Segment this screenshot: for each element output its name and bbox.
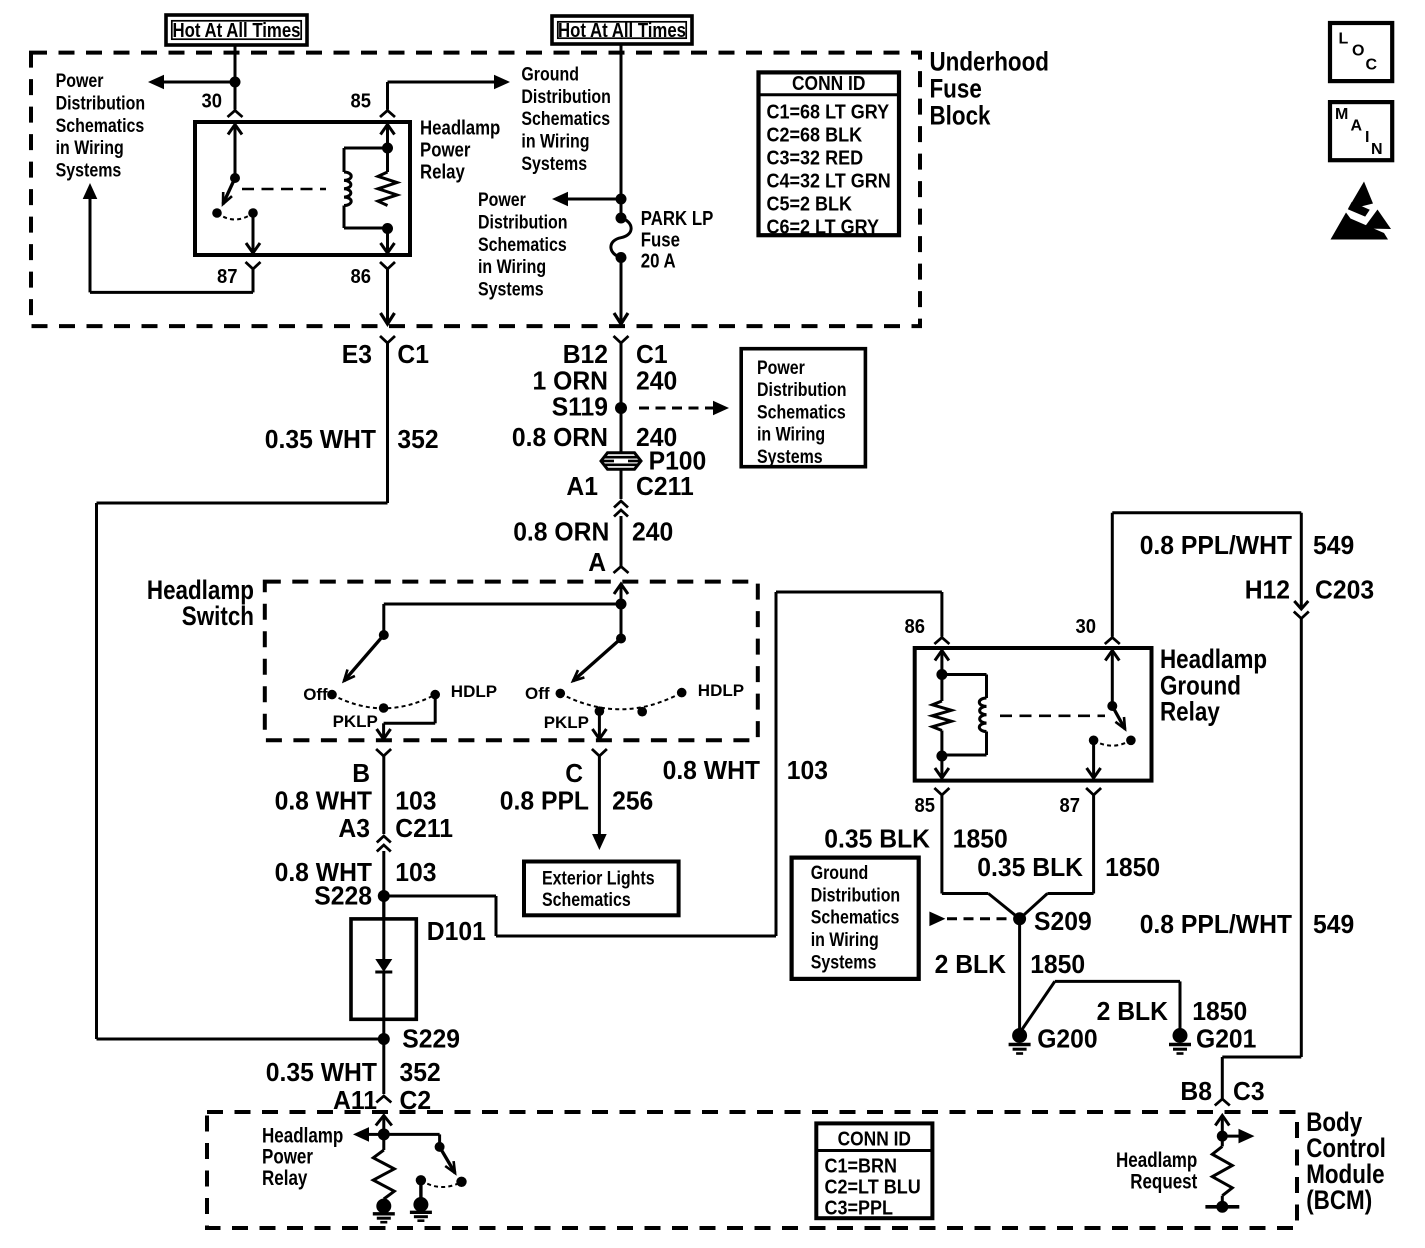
arrow down pin 85 inside relay bbox=[935, 768, 949, 778]
svg-text:Switch: Switch bbox=[182, 601, 254, 631]
svg-text:Headlamp: Headlamp bbox=[1116, 1149, 1197, 1172]
pin label 87 below bbox=[1060, 795, 1081, 817]
switch feed left drop bbox=[382, 604, 385, 635]
splice S209 bbox=[1013, 912, 1026, 925]
connector pin 87 power relay bbox=[246, 262, 261, 269]
splice label S119 bbox=[552, 392, 608, 422]
svg-text:C1=BRN: C1=BRN bbox=[825, 1156, 898, 1178]
svg-text:Hot At All Times: Hot At All Times bbox=[173, 20, 301, 42]
splice label S229 bbox=[402, 1024, 460, 1054]
conn C211 (B) bbox=[395, 813, 453, 843]
svg-text:A1: A1 bbox=[566, 471, 598, 501]
svg-text:Distribution: Distribution bbox=[811, 885, 901, 906]
label BCM l3 bbox=[1306, 1159, 1384, 1189]
conn C3 bbox=[1233, 1076, 1265, 1106]
junction at pin 30 feed bbox=[230, 77, 241, 88]
text bcm conn row C1=BRN bbox=[825, 1156, 898, 1178]
svg-text:0.35 BLK: 0.35 BLK bbox=[977, 852, 1083, 882]
text CONN ID title (UFB) bbox=[792, 73, 865, 95]
circuit 549 top bbox=[1313, 530, 1354, 560]
label 0.35 WHT (bottom) bbox=[266, 1057, 377, 1087]
svg-text:A3: A3 bbox=[338, 813, 370, 843]
arrow up pin 30 inside relay bbox=[228, 125, 242, 135]
junction headlamp request bbox=[1217, 1131, 1228, 1142]
wire HDLP contact drop bbox=[434, 695, 437, 724]
arrow down leaving fuse block (right) bbox=[614, 313, 628, 324]
svg-text:Schematics: Schematics bbox=[811, 908, 900, 929]
circuit 1850 (85) bbox=[953, 824, 1008, 854]
text ground dist box l4 bbox=[811, 930, 879, 951]
svg-text:Schematics: Schematics bbox=[757, 402, 846, 423]
circuit 256 bbox=[612, 786, 653, 816]
svg-text:Schematics: Schematics bbox=[521, 109, 610, 130]
wire HDLP to B jog bbox=[384, 722, 436, 725]
text PKLP (right) bbox=[544, 713, 589, 732]
svg-text:Schematics: Schematics bbox=[478, 235, 567, 256]
svg-text:240: 240 bbox=[636, 366, 677, 396]
contact HDLP (left wafer) bbox=[430, 690, 440, 700]
CONN ID table (BCM) bbox=[816, 1123, 932, 1218]
circuit 240 c bbox=[632, 516, 673, 546]
svg-text:C3=PPL: C3=PPL bbox=[825, 1197, 894, 1219]
coil left lead lower bbox=[343, 206, 346, 229]
pin label 86 (power relay) bbox=[351, 266, 372, 288]
svg-text:549: 549 bbox=[1313, 909, 1354, 939]
svg-text:Schematics: Schematics bbox=[542, 890, 631, 911]
svg-text:Power: Power bbox=[757, 358, 805, 379]
conn C2 bbox=[400, 1085, 432, 1115]
label Headlamp Power Relay l3 bbox=[420, 161, 466, 183]
text Exterior Lights bbox=[542, 869, 655, 890]
pin label 85 below bbox=[915, 795, 936, 817]
svg-text:Exterior Lights: Exterior Lights bbox=[542, 869, 655, 890]
text power dist box l2 bbox=[757, 380, 847, 401]
svg-text:O: O bbox=[1352, 43, 1364, 60]
wire 85 down bbox=[940, 795, 943, 894]
arrow up bcm drive input bbox=[376, 1116, 392, 1126]
coil left lead upper bbox=[343, 148, 346, 172]
splice S119 bbox=[615, 402, 627, 414]
text Schematics (ext lights) bbox=[542, 890, 631, 911]
contact movable (bcm) bbox=[456, 1177, 466, 1187]
wire contact to pin 87 bbox=[252, 213, 255, 252]
wire 352 WHT to S229 bbox=[97, 1038, 385, 1041]
icon MAIN box bbox=[1330, 102, 1392, 160]
fuse F1 PARK LP 20A symbol bbox=[611, 218, 631, 258]
text Power (bcm drive) bbox=[262, 1146, 313, 1169]
wire A into switch bbox=[620, 584, 623, 604]
svg-text:C2=LT BLU: C2=LT BLU bbox=[825, 1177, 921, 1199]
label Headlamp Ground Relay l3 bbox=[1160, 696, 1220, 726]
wire to power distribution (mid) bbox=[568, 198, 621, 201]
svg-text:PKLP: PKLP bbox=[544, 713, 589, 732]
fuse bottom terminal bbox=[616, 252, 627, 263]
text Power Distribution Schematics (mid) l4 bbox=[478, 257, 546, 278]
label Headlamp Ground Relay l2 bbox=[1160, 670, 1241, 700]
svg-text:352: 352 bbox=[397, 424, 438, 454]
connector E3/C1 (fuse block) bbox=[380, 336, 395, 343]
arrow down pin 87 inside relay bbox=[246, 243, 260, 253]
svg-text:2 BLK: 2 BLK bbox=[1097, 996, 1169, 1026]
arrow to power distribution schematics bbox=[148, 75, 164, 90]
text conn row C5=2 BLK bbox=[767, 194, 853, 216]
connector B12/C1 (fuse block) bbox=[614, 336, 629, 343]
connector A headlamp switch bbox=[614, 567, 629, 574]
svg-text:PARK LP: PARK LP bbox=[641, 208, 714, 230]
svg-text:S228: S228 bbox=[314, 881, 372, 911]
text CONN ID title (BCM) bbox=[838, 1129, 911, 1151]
svg-text:C5=2 BLK: C5=2 BLK bbox=[767, 194, 853, 216]
arrow down leaving fuse block (left) bbox=[381, 313, 395, 324]
wire pin30 to switch pivot bbox=[234, 125, 237, 179]
svg-text:Power: Power bbox=[56, 71, 104, 92]
wire 87 diag to S209 bbox=[1020, 894, 1048, 919]
wire S228 branch h2 bbox=[496, 935, 776, 938]
wire junction right bbox=[384, 1133, 440, 1136]
connector B8/C3 bbox=[1215, 1099, 1230, 1106]
coil bottom link (ground relay) bbox=[942, 754, 987, 757]
text Power Distribution Schematics in Wiring Systems l5 bbox=[56, 161, 122, 182]
reference box Power Distribution Schematics bbox=[741, 349, 865, 467]
ground internal BCM left bbox=[373, 1199, 395, 1223]
svg-text:103: 103 bbox=[787, 755, 828, 785]
wire 86 drop to relay bbox=[940, 592, 943, 637]
wire 103 WHT seg1 bbox=[382, 756, 385, 834]
wire branch drop to G201 bbox=[1179, 981, 1182, 1030]
connector pin 87 ground relay bbox=[1086, 788, 1101, 795]
ground G200 bbox=[1009, 1028, 1031, 1054]
wire C exit drop bbox=[598, 711, 601, 738]
text ground dist box l2 bbox=[811, 885, 901, 906]
svg-text:C3=32 RED: C3=32 RED bbox=[767, 148, 864, 170]
connector A3/C211 bbox=[377, 836, 391, 843]
svg-text:C2=68 BLK: C2=68 BLK bbox=[767, 125, 863, 147]
wire resistor to ground (bcm) bbox=[382, 1199, 385, 1201]
wire A11 into BCM bbox=[382, 1116, 385, 1135]
label 0.8 WHT b1 bbox=[275, 786, 373, 816]
svg-text:A: A bbox=[1351, 118, 1363, 135]
text conn row C1=68 LT GRY bbox=[767, 102, 890, 124]
svg-text:I: I bbox=[1365, 129, 1369, 146]
wire 549 jog left bbox=[1222, 1056, 1301, 1059]
wire 352 WHT segment v1 bbox=[386, 343, 389, 503]
switch pivot (power relay) bbox=[230, 173, 240, 183]
switch pivot (bcm) bbox=[435, 1142, 445, 1152]
contact PKLP (right wafer) bbox=[595, 706, 605, 716]
svg-text:Distribution: Distribution bbox=[478, 212, 568, 233]
arrow into exterior lights box bbox=[592, 834, 607, 850]
text Relay (bcm drive) bbox=[262, 1167, 308, 1190]
svg-text:Fuse: Fuse bbox=[930, 73, 982, 103]
svg-text:0.8 PPL/WHT: 0.8 PPL/WHT bbox=[1140, 530, 1292, 560]
ground label G200 bbox=[1037, 1024, 1097, 1054]
icon ESD warning symbol bbox=[1331, 182, 1392, 240]
res lead lower (ground relay) bbox=[940, 731, 943, 757]
label P100 bbox=[649, 446, 707, 476]
text Ground Distribution Schematics l3 bbox=[521, 109, 610, 130]
svg-text:Systems: Systems bbox=[757, 447, 823, 468]
svg-text:30: 30 bbox=[202, 91, 223, 113]
coil top link (ground relay) bbox=[942, 673, 987, 676]
dashed contact arc (ground relay) bbox=[1094, 740, 1131, 745]
text conn row C4=32 LT GRN bbox=[767, 171, 891, 193]
splice label S209 bbox=[1034, 906, 1092, 936]
svg-text:Headlamp: Headlamp bbox=[262, 1124, 343, 1147]
svg-text:D101: D101 bbox=[427, 916, 486, 946]
text Power Distribution Schematics (mid) l2 bbox=[478, 212, 568, 233]
switch arm right wafer bbox=[573, 639, 621, 682]
wire pin 87 loopback riser bbox=[89, 198, 92, 292]
text Power Distribution Schematics in Wiring Systems l1 bbox=[56, 71, 104, 92]
arrow from ground dist box to S209 bbox=[929, 912, 945, 927]
wire junction to left arrow bbox=[369, 1133, 384, 1136]
arrow up entering headlamp switch bbox=[614, 584, 628, 594]
svg-text:in Wiring: in Wiring bbox=[56, 138, 124, 159]
arrow down pin 87 inside relay bbox=[1087, 768, 1101, 778]
svg-text:S119: S119 bbox=[552, 392, 608, 422]
svg-text:1850: 1850 bbox=[1105, 852, 1160, 882]
svg-text:Power: Power bbox=[420, 140, 471, 162]
svg-text:C: C bbox=[1366, 57, 1378, 74]
svg-text:C4=32 LT GRN: C4=32 LT GRN bbox=[767, 171, 891, 193]
svg-text:N: N bbox=[1371, 141, 1383, 158]
circuit 1850 (87) bbox=[1105, 852, 1160, 882]
dashed link S119 to power dist box bbox=[639, 407, 713, 410]
wire B exit drop bbox=[382, 723, 385, 738]
resistor (ground relay) bbox=[932, 701, 951, 731]
wire through D101 lower bbox=[382, 972, 385, 1039]
junction bcm drive bbox=[378, 1128, 390, 1140]
resistor leads (power relay) bbox=[386, 148, 389, 172]
pivot right wafer bbox=[616, 634, 626, 644]
resistor bcm drive bbox=[373, 1150, 394, 1199]
wire 30 riser bbox=[1111, 513, 1114, 637]
pin B8 bbox=[1180, 1076, 1212, 1106]
svg-text:C1=68 LT GRY: C1=68 LT GRY bbox=[767, 102, 890, 124]
flag box Hot At All Times (right) bbox=[552, 16, 692, 44]
splice S229 bbox=[378, 1033, 390, 1045]
splice S228 bbox=[378, 890, 390, 902]
label 0.8 WHT b2 bbox=[275, 857, 373, 887]
arrow down exit C bbox=[592, 729, 606, 739]
svg-text:CONN ID: CONN ID bbox=[792, 73, 865, 95]
wire 240 ORN seg2 bbox=[620, 469, 623, 500]
svg-text:Ground: Ground bbox=[811, 863, 869, 884]
svg-text:(BCM): (BCM) bbox=[1306, 1185, 1372, 1215]
dashed travel arc (left wafer) bbox=[332, 695, 435, 709]
ground internal BCM right bbox=[410, 1197, 432, 1221]
diode D101 symbol bbox=[375, 959, 392, 972]
reference box Exterior Lights Schematics bbox=[524, 862, 679, 916]
dashed actuator link (ground relay) bbox=[1000, 714, 1105, 717]
svg-text:Systems: Systems bbox=[56, 161, 122, 182]
svg-text:Hot At All Times: Hot At All Times bbox=[558, 20, 686, 42]
arrow headlamp request signal bbox=[1239, 1129, 1255, 1144]
connector A11/C2 bbox=[376, 1096, 391, 1103]
circuit 103 right bbox=[787, 755, 828, 785]
wire 103 top link to 86 bbox=[776, 591, 942, 594]
svg-text:in Wiring: in Wiring bbox=[521, 132, 589, 153]
pivot left wafer bbox=[379, 630, 389, 640]
label 20 A bbox=[641, 251, 676, 273]
svg-text:H12: H12 bbox=[1245, 575, 1290, 605]
switch arm left wafer bbox=[344, 635, 384, 681]
CONN ID table (underhood fuse block) bbox=[759, 72, 900, 235]
wire 256 PPL drop bbox=[598, 756, 601, 835]
wire 240 ORN seg1 bbox=[620, 343, 623, 453]
svg-text:M: M bbox=[1335, 106, 1348, 123]
coil top link bbox=[344, 147, 388, 150]
svg-text:B8: B8 bbox=[1180, 1076, 1212, 1106]
junction above fuse bbox=[616, 194, 627, 205]
label Underhood Fuse Block bbox=[930, 46, 1050, 76]
label 0.8 WHT right bbox=[663, 755, 761, 785]
pin label 86 (ground relay) bbox=[905, 616, 926, 638]
wire S228 branch v1 bbox=[495, 896, 498, 936]
svg-text:G200: G200 bbox=[1037, 1024, 1097, 1054]
wire pin 86 down to E3 bbox=[386, 269, 389, 322]
conn C203 bbox=[1315, 575, 1374, 605]
switch feed right drop bbox=[620, 604, 623, 639]
svg-text:0.8 PPL: 0.8 PPL bbox=[500, 786, 589, 816]
wire 549 right drop b bbox=[1300, 619, 1303, 1058]
text Power Distribution Schematics (mid) l1 bbox=[478, 190, 526, 211]
connector pin 86 power relay bbox=[380, 262, 395, 269]
conn C211 (mid) bbox=[636, 471, 694, 501]
contact HDLP (right wafer) bbox=[677, 688, 687, 698]
body control module (dashed outline) bbox=[207, 1112, 1297, 1228]
wire 549 top h bbox=[1112, 511, 1301, 514]
svg-text:Off: Off bbox=[303, 685, 328, 704]
label Fuse bbox=[641, 229, 680, 251]
svg-text:1850: 1850 bbox=[1192, 996, 1247, 1026]
switch arm (ground relay) bbox=[1112, 706, 1125, 729]
dashed contact arc (power relay) bbox=[217, 213, 253, 220]
dashed actuator link (power relay) bbox=[242, 188, 326, 191]
text conn row C3=32 RED bbox=[767, 148, 864, 170]
svg-text:0.8 WHT: 0.8 WHT bbox=[663, 755, 761, 785]
svg-text:C6=2 LT GRY: C6=2 LT GRY bbox=[767, 217, 880, 239]
fuse top terminal bbox=[616, 213, 627, 224]
label 0.35 BLK (85) bbox=[824, 824, 930, 854]
svg-text:PKLP: PKLP bbox=[333, 712, 378, 731]
coil right lead lower bbox=[985, 732, 988, 756]
svg-text:103: 103 bbox=[395, 857, 436, 887]
coil bottom junction (ground relay) bbox=[936, 751, 947, 762]
lead out of pullup bbox=[1221, 1196, 1224, 1207]
svg-text:87: 87 bbox=[217, 266, 238, 288]
svg-text:in Wiring: in Wiring bbox=[811, 930, 879, 951]
circuit 240 a bbox=[636, 366, 677, 396]
pin label 85 (power relay) bbox=[351, 91, 372, 113]
wire pin 85 riser bbox=[386, 82, 389, 110]
contact movable (power relay) bbox=[248, 208, 258, 218]
label BCM l4 bbox=[1306, 1185, 1372, 1215]
wire 30 to pivot bbox=[1111, 650, 1114, 706]
svg-text:G201: G201 bbox=[1196, 1024, 1256, 1054]
svg-text:Schematics: Schematics bbox=[56, 116, 145, 137]
connector pin 30 power relay bbox=[228, 111, 243, 118]
text Request bbox=[1130, 1170, 1197, 1193]
svg-text:549: 549 bbox=[1313, 530, 1354, 560]
arrow to power distribution schematics (mid) bbox=[552, 192, 568, 207]
svg-text:85: 85 bbox=[915, 795, 936, 817]
flag box Hot At All Times (left) bbox=[166, 15, 307, 45]
wire to power distribution (left) bbox=[163, 81, 235, 84]
text conn row C2=68 BLK bbox=[767, 125, 863, 147]
connector B below switch bbox=[376, 749, 391, 756]
switch pivot (ground relay) bbox=[1107, 701, 1117, 711]
wire 85 exit bbox=[940, 756, 943, 777]
text power dist box l3 bbox=[757, 402, 846, 423]
contact NO (ground relay) bbox=[1089, 736, 1099, 746]
svg-text:Systems: Systems bbox=[811, 953, 877, 974]
svg-text:0.8 ORN: 0.8 ORN bbox=[513, 516, 609, 546]
text ground dist box l5 bbox=[811, 953, 877, 974]
wire 240 ORN seg3 bbox=[620, 516, 623, 566]
icon LOC box bbox=[1330, 23, 1392, 81]
wire 352 to BCM bbox=[382, 1039, 385, 1094]
wire down to bcm switch pivot bbox=[438, 1134, 441, 1147]
relay U1 Headlamp Power Relay box bbox=[195, 122, 410, 255]
wire 352 WHT long drop bbox=[95, 503, 98, 1039]
arrow up pin 86 inside relay bbox=[935, 651, 949, 661]
svg-text:A: A bbox=[588, 547, 606, 577]
text power dist box l4 bbox=[757, 425, 825, 446]
wire pin 87 loopback h bbox=[90, 291, 253, 294]
text ground dist box l3 bbox=[811, 908, 900, 929]
wire 85 diag to S209 bbox=[988, 894, 1019, 919]
circuit 103 b1 bbox=[395, 786, 436, 816]
contact NO left (power relay) bbox=[212, 208, 222, 218]
label 0.8 PPL bbox=[500, 786, 589, 816]
pin label 30 (power relay) bbox=[202, 91, 223, 113]
pin A3 bbox=[338, 813, 370, 843]
circuit 1850 (G200) bbox=[1030, 949, 1085, 979]
coil bottom link bbox=[344, 227, 388, 230]
circuit 549 low bbox=[1313, 909, 1354, 939]
text Headlamp (bcm drive) bbox=[262, 1124, 343, 1147]
svg-text:L: L bbox=[1339, 31, 1349, 48]
svg-text:87: 87 bbox=[1060, 795, 1081, 817]
dashed travel arc (right wafer) bbox=[560, 693, 681, 710]
svg-text:C211: C211 bbox=[636, 471, 694, 501]
label Underhood Fuse Block line2 bbox=[930, 73, 982, 103]
text Power Distribution Schematics in Wiring Systems l2 bbox=[56, 93, 146, 114]
svg-text:S209: S209 bbox=[1034, 906, 1092, 936]
svg-text:Off: Off bbox=[525, 684, 550, 703]
label 0.8 PPL/WHT low bbox=[1140, 909, 1292, 939]
svg-text:2 BLK: 2 BLK bbox=[935, 949, 1007, 979]
svg-text:Headlamp: Headlamp bbox=[420, 118, 500, 140]
wire 103 WHT seg2 bbox=[382, 851, 385, 919]
label BCM l1 bbox=[1306, 1107, 1362, 1137]
svg-text:86: 86 bbox=[905, 616, 926, 638]
pin A1 bbox=[566, 471, 598, 501]
svg-text:Request: Request bbox=[1130, 1170, 1197, 1193]
text Off (left) bbox=[303, 685, 328, 704]
svg-text:Fuse: Fuse bbox=[641, 229, 680, 251]
text Power Distribution Schematics in Wiring Systems l4 bbox=[56, 138, 124, 159]
label Headlamp Switch l2 bbox=[182, 601, 254, 631]
wire branch h to G201 bbox=[1055, 980, 1180, 983]
diode D101 box bbox=[351, 919, 416, 1019]
svg-text:352: 352 bbox=[400, 1057, 441, 1087]
connector A1/C211 bbox=[614, 510, 628, 517]
wire contact to pin 87 (ground relay) bbox=[1092, 740, 1095, 777]
wire 86 to coil node bbox=[940, 650, 943, 675]
svg-text:C: C bbox=[565, 758, 583, 788]
